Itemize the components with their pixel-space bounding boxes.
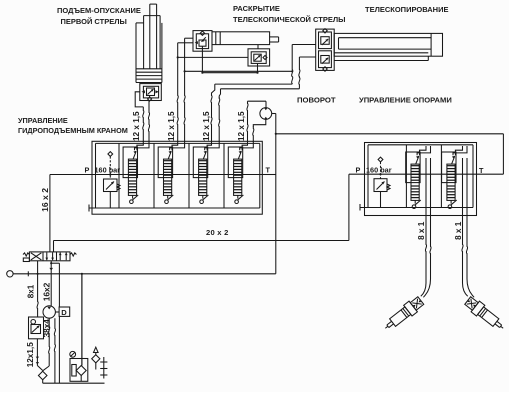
svg-text:ТЕЛЕСКОПИЧЕСКОЙ СТРЕЛЫ: ТЕЛЕСКОПИЧЕСКОЙ СТРЕЛЫ (233, 15, 345, 24)
svg-text:8x1: 8x1 (27, 284, 36, 298)
svg-text:T: T (479, 166, 484, 175)
svg-text:20 x 2: 20 x 2 (206, 228, 229, 237)
svg-text:12 x 1,5: 12 x 1,5 (167, 111, 176, 141)
svg-text:РАСКРЫТИЕ: РАСКРЫТИЕ (233, 4, 280, 13)
svg-text:T: T (266, 165, 271, 174)
svg-text:ТЕЛЕСКОПИРОВАНИЕ: ТЕЛЕСКОПИРОВАНИЕ (365, 5, 448, 14)
svg-text:D: D (61, 308, 67, 317)
svg-text:УПРАВЛЕНИЕ: УПРАВЛЕНИЕ (18, 116, 68, 125)
svg-text:ПОВОРОТ: ПОВОРОТ (297, 95, 336, 104)
svg-text:P: P (356, 165, 361, 174)
svg-text:16 x 2: 16 x 2 (40, 188, 50, 212)
svg-text:ПЕРВОЙ СТРЕЛЫ: ПЕРВОЙ СТРЕЛЫ (61, 17, 127, 26)
svg-text:160 bar: 160 bar (95, 165, 121, 174)
svg-text:16x2: 16x2 (41, 282, 51, 301)
svg-text:ПОДЪЕМ-ОПУСКАНИЕ: ПОДЪЕМ-ОПУСКАНИЕ (57, 6, 141, 15)
svg-text:P: P (85, 165, 90, 174)
svg-text:УПРАВЛЕНИЕ ОПОРАМИ: УПРАВЛЕНИЕ ОПОРАМИ (359, 95, 452, 104)
svg-text:12x1,5: 12x1,5 (26, 342, 35, 367)
svg-text:12 x 1,5: 12 x 1,5 (202, 111, 211, 141)
svg-text:12 x 1,5: 12 x 1,5 (132, 111, 141, 141)
svg-text:12 x 1,5: 12 x 1,5 (237, 111, 246, 141)
svg-text:8 x 1: 8 x 1 (417, 221, 426, 240)
svg-text:8 x 1: 8 x 1 (454, 221, 463, 240)
svg-text:160 bar: 160 bar (366, 165, 392, 174)
svg-text:ГИДРОПОДЪЕМНЫМ КРАНОМ: ГИДРОПОДЪЕМНЫМ КРАНОМ (18, 126, 128, 135)
